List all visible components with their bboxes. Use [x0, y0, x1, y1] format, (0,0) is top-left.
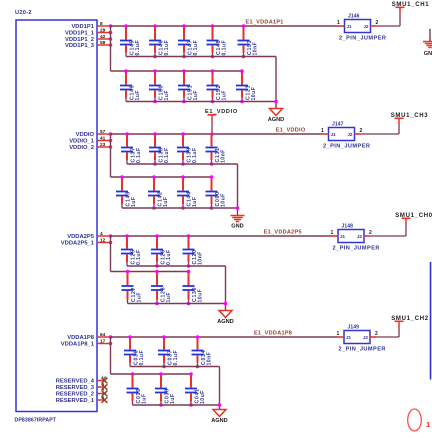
wire group4 row1 ground rail	[130, 366, 220, 368]
svg-text:10nF: 10nF	[253, 42, 259, 56]
svg-text:2_PIN_JUMPER: 2_PIN_JUMPER	[339, 347, 386, 353]
svg-text:AGND: AGND	[217, 319, 233, 325]
svg-text:10uF: 10uF	[200, 390, 206, 404]
svg-text:J1: J1	[347, 24, 353, 29]
capacitor C130 10uF	[183, 270, 204, 306]
capacitor C125 0.1uF	[121, 234, 142, 266]
svg-text:2: 2	[375, 331, 378, 337]
wire J148 pin2 to port	[370, 224, 406, 236]
2-pin jumper J149	[337, 325, 386, 353]
ground AGND symbol	[211, 410, 227, 424]
svg-text:42: 42	[100, 34, 106, 40]
pin 9 RESERVED_3 no-connect	[56, 382, 108, 391]
wire group2 row2 ground rail	[122, 207, 238, 209]
power port SMU1_CH2	[391, 316, 429, 328]
svg-text:17: 17	[100, 339, 106, 345]
capacitor C038 1uF	[155, 372, 176, 407]
svg-text:8: 8	[100, 21, 103, 27]
svg-text:1uF: 1uF	[164, 90, 170, 100]
pin 58 VDD1P1_3	[65, 40, 112, 49]
svg-text:SMU1_CH0: SMU1_CH0	[395, 213, 432, 219]
capacitor C036 0.1uF	[124, 335, 145, 366]
svg-text:J149: J149	[348, 325, 360, 331]
capacitor C153 10nF	[238, 24, 259, 58]
svg-text:10nF: 10nF	[221, 149, 227, 163]
power port SMU1_CH0	[395, 213, 432, 225]
svg-text:J2: J2	[363, 24, 369, 29]
svg-text:1: 1	[331, 230, 334, 236]
svg-text:E1_VDDA1P1: E1_VDDA1P1	[246, 20, 284, 26]
svg-text:1uF: 1uF	[135, 90, 141, 100]
svg-text:SMU1_CH2: SMU1_CH2	[391, 316, 429, 322]
wire J149 pin2 to port	[376, 327, 399, 337]
wire group3 left bus	[110, 236, 112, 272]
svg-text:2_PIN_JUMPER: 2_PIN_JUMPER	[339, 36, 386, 42]
pin 4 VDDA2P5	[67, 231, 112, 240]
pin 42 VDD1P1_2	[65, 34, 112, 43]
junction group3 ground	[224, 302, 228, 306]
power port SMU1_CH1	[392, 2, 430, 14]
svg-text:1: 1	[426, 420, 430, 429]
capacitor C120 10nF	[183, 234, 204, 268]
svg-text:10nF: 10nF	[198, 251, 204, 265]
wire J146 pin2 to port	[377, 13, 401, 26]
junction group2 ground	[236, 206, 240, 210]
wire group1 row1 ground rail	[126, 56, 276, 58]
svg-text:1uF: 1uF	[142, 394, 148, 404]
junction power port E1_VDDIO	[210, 132, 214, 136]
svg-text:VDDIO: VDDIO	[76, 132, 95, 138]
wire group2 ground riser	[237, 164, 239, 216]
wire edge of next part	[430, 262, 432, 380]
pin 8 VDD1P1	[71, 21, 112, 30]
svg-text:J147: J147	[332, 122, 344, 128]
svg-text:0.1uF: 0.1uF	[135, 40, 141, 56]
capacitor C149 1uF	[120, 69, 141, 101]
svg-text:2_PIN_JUMPER: 2_PIN_JUMPER	[333, 246, 380, 252]
ground AGND symbol	[268, 109, 284, 123]
wire J147 pin2 to port	[361, 124, 400, 134]
svg-text:VDDA1P8: VDDA1P8	[67, 335, 95, 341]
2-pin jumper J147	[321, 122, 370, 150]
svg-text:1uF: 1uF	[222, 90, 228, 100]
wire right edge to GND	[429, 29, 431, 42]
svg-text:DP83867IRPAPT: DP83867IRPAPT	[15, 418, 57, 424]
wire group3 supply rail	[111, 235, 333, 237]
power port SMU1_CH3	[391, 113, 429, 125]
capacitor C144 1uF	[177, 175, 198, 210]
svg-text:VDDA2P5: VDDA2P5	[67, 234, 95, 240]
svg-text:U20-2: U20-2	[15, 10, 32, 16]
pin 23 VDDIO_2	[69, 142, 112, 151]
ground AGND symbol	[217, 311, 233, 325]
svg-text:J1: J1	[331, 132, 337, 137]
capacitor C143 1uF	[116, 175, 137, 208]
pin 57 VDDIO	[76, 129, 113, 138]
wire group2 left bus	[110, 134, 112, 177]
capacitor C034 10nF	[192, 335, 213, 368]
capacitor C150 1uF	[149, 69, 170, 103]
svg-text:10uF: 10uF	[251, 87, 257, 101]
wire group1 supply rail	[111, 25, 339, 27]
svg-text:2: 2	[360, 128, 363, 134]
svg-text:RESERVED_3: RESERVED_3	[56, 385, 95, 391]
capacitor C126 0.1uF	[151, 234, 172, 268]
wire group1 left bus	[110, 26, 112, 71]
svg-text:J2: J2	[357, 234, 363, 239]
svg-text:E1_VDDIO: E1_VDDIO	[276, 128, 306, 134]
pin 5 RESERVED_1 no-connect	[56, 395, 108, 404]
svg-text:VDDIO_2: VDDIO_2	[69, 145, 94, 151]
svg-text:1uF: 1uF	[137, 292, 143, 302]
wire group3 row2 supply rail	[111, 271, 189, 273]
svg-text:0.1uF: 0.1uF	[136, 147, 142, 163]
svg-text:AGND: AGND	[268, 117, 284, 123]
capacitor C137 0.1uF	[121, 132, 142, 164]
svg-text:1uF: 1uF	[166, 292, 172, 302]
svg-text:GND: GND	[424, 51, 432, 57]
wire group4 row2 ground rail	[133, 404, 220, 406]
capacitor C121 10uF	[236, 69, 257, 103]
svg-text:J148: J148	[342, 224, 354, 230]
capacitor C041 10uF	[185, 372, 206, 407]
svg-text:VDDIO_1: VDDIO_1	[69, 139, 95, 145]
svg-text:J2: J2	[363, 335, 369, 340]
svg-text:SMU1_CH3: SMU1_CH3	[391, 113, 429, 119]
svg-text:1uF: 1uF	[193, 90, 199, 100]
ground GND symbol	[423, 42, 432, 58]
wire group4 ground riser	[219, 367, 221, 410]
capacitor C128 1uF	[151, 270, 172, 306]
wire group1 row2 ground rail	[126, 101, 276, 103]
wire group3 ground riser	[225, 266, 227, 311]
IC U20-2 DP83867IRPAPT body	[16, 20, 97, 412]
junction group4 ground	[218, 403, 222, 407]
wire group3 row2 ground rail	[128, 303, 226, 305]
pin 17 VDDA1P8_1	[61, 339, 113, 348]
svg-text:29: 29	[100, 28, 106, 34]
capacitor C152 1uF	[207, 69, 228, 103]
svg-text:SMU1_CH1: SMU1_CH1	[392, 2, 430, 8]
svg-text:E1_VDDIO: E1_VDDIO	[205, 109, 238, 115]
pin 7 RESERVED_2 no-connect	[56, 389, 108, 398]
capacitor C142 1uF	[148, 175, 169, 210]
svg-text:VDD1P1_1: VDD1P1_1	[65, 31, 95, 37]
svg-text:1uF: 1uF	[192, 197, 198, 207]
svg-text:RESERVED_4: RESERVED_4	[56, 379, 95, 385]
capacitor C037 0.1uF	[158, 335, 179, 368]
svg-text:J1: J1	[340, 234, 346, 239]
svg-text:E1_VDDA1P8: E1_VDDA1P8	[254, 331, 292, 337]
svg-text:0.1uF: 0.1uF	[164, 40, 170, 56]
svg-text:64: 64	[100, 332, 106, 338]
svg-text:57: 57	[100, 129, 106, 135]
capacitor C139 0.1uF	[177, 132, 198, 166]
capacitor C131 10nF	[206, 134, 227, 166]
svg-text:J1: J1	[346, 335, 352, 340]
svg-text:VDDA1P8_1: VDDA1P8_1	[61, 342, 95, 348]
svg-text:58: 58	[100, 40, 106, 46]
svg-text:RESERVED_2: RESERVED_2	[56, 392, 94, 398]
capacitor C148 0.1uF	[207, 24, 228, 58]
pin 16 RESERVED_4 no-connect	[56, 376, 108, 385]
svg-text:10uF: 10uF	[198, 289, 204, 303]
svg-text:0.1uF: 0.1uF	[136, 249, 142, 265]
svg-text:VDD1P1_3: VDD1P1_3	[65, 43, 95, 49]
pin 64 VDDA1P8	[67, 332, 112, 341]
wire group1 ground riser	[275, 57, 277, 109]
capacitor C145 0.1uF	[120, 24, 141, 56]
power port E1_VDDIO	[205, 109, 238, 134]
svg-text:GND: GND	[231, 224, 243, 230]
svg-text:0.1uF: 0.1uF	[166, 249, 172, 265]
svg-text:1: 1	[337, 331, 340, 337]
capacitor C146 0.1uF	[149, 24, 170, 58]
capacitor C090 10uF	[206, 175, 227, 210]
capacitor C147 0.1uF	[178, 24, 199, 58]
2-pin jumper J148	[331, 224, 380, 252]
svg-text:AGND: AGND	[211, 418, 227, 424]
2-pin jumper J146	[337, 14, 386, 42]
svg-text:2_PIN_JUMPER: 2_PIN_JUMPER	[323, 144, 370, 150]
wire group4 left bus	[110, 337, 112, 374]
svg-text:10uF: 10uF	[221, 193, 227, 207]
capacitor C127 1uF	[122, 270, 143, 304]
svg-text:0.1uF: 0.1uF	[222, 40, 228, 56]
capacitor C039 1uF	[127, 372, 148, 405]
capacitor C138 0.1uF	[149, 132, 170, 166]
pin 41 VDDIO_1	[69, 136, 112, 145]
svg-text:10nF: 10nF	[207, 352, 213, 366]
wire group1 row2 supply rail	[111, 70, 243, 72]
svg-text:J2: J2	[347, 132, 353, 137]
svg-text:RESERVED_1: RESERVED_1	[56, 398, 95, 404]
wire group2 row2 supply rail	[111, 176, 212, 178]
svg-text:J146: J146	[348, 14, 360, 20]
svg-text:0.1uF: 0.1uF	[139, 350, 145, 366]
svg-text:2: 2	[369, 230, 372, 236]
svg-text:12: 12	[100, 238, 106, 244]
svg-text:0.1uF: 0.1uF	[193, 40, 199, 56]
wire group4 row2 supply rail	[111, 373, 192, 375]
svg-text:VDDA2P5_1: VDDA2P5_1	[61, 241, 95, 247]
svg-text:1: 1	[321, 128, 324, 134]
wire group3 row1 ground rail	[127, 265, 226, 267]
svg-text:0.1uF: 0.1uF	[173, 350, 179, 366]
svg-text:23: 23	[100, 142, 106, 148]
capacitor C151 1uF	[178, 69, 199, 103]
svg-text:E1_VDDA2P5: E1_VDDA2P5	[264, 230, 302, 236]
junction group1 ground	[274, 100, 278, 104]
svg-text:1uF: 1uF	[131, 197, 137, 207]
svg-text:1: 1	[337, 20, 340, 26]
svg-text:1uF: 1uF	[170, 394, 176, 404]
ground GND symbol	[231, 216, 245, 230]
svg-text:0.1uF: 0.1uF	[164, 147, 170, 163]
pin 29 VDD1P1_1	[65, 28, 112, 37]
svg-text:0.1uF: 0.1uF	[192, 147, 198, 163]
wire group2 row1 ground rail	[127, 163, 238, 165]
wire group2 supply rail	[111, 133, 323, 135]
svg-text:2: 2	[376, 20, 379, 26]
svg-text:4: 4	[100, 231, 103, 237]
svg-text:1uF: 1uF	[163, 197, 169, 207]
pin 12 VDDA2P5_1	[61, 238, 113, 247]
wire group4 supply rail	[111, 336, 339, 338]
svg-text:VDD1P1: VDD1P1	[71, 24, 94, 30]
svg-text:41: 41	[100, 136, 106, 142]
annotation red circle	[408, 409, 422, 431]
